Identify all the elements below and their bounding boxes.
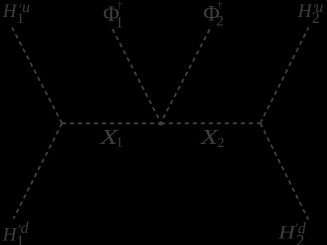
svg-text:H: H xyxy=(277,222,296,243)
svg-text:2: 2 xyxy=(217,136,224,151)
svg-text:1: 1 xyxy=(115,14,123,31)
wire H2u propagator xyxy=(260,28,308,124)
svg-text:2: 2 xyxy=(296,231,305,245)
svg-text:2: 2 xyxy=(312,10,320,27)
svg-text:†: † xyxy=(217,0,222,11)
svg-text:†: † xyxy=(117,0,122,11)
node label H1'u xyxy=(2,0,30,27)
wire H1d propagator xyxy=(14,123,63,218)
node label H1'd xyxy=(2,220,30,245)
node label Phi2 dagger xyxy=(203,0,224,29)
node label X1 xyxy=(99,125,123,150)
wire H1u propagator xyxy=(12,28,62,124)
wire Phi1 propagator xyxy=(113,29,163,125)
wire Phi2 propagator xyxy=(159,29,209,125)
svg-text:1: 1 xyxy=(116,135,123,150)
svg-text:1: 1 xyxy=(16,233,24,245)
svg-text:H: H xyxy=(297,1,313,22)
wire X1 horizontal propagator xyxy=(62,122,161,124)
node label H2'd xyxy=(277,220,307,245)
wire H2d propagator xyxy=(260,123,308,219)
svg-text:2: 2 xyxy=(216,13,224,29)
node label X2 xyxy=(199,125,224,151)
svg-text:1: 1 xyxy=(17,11,25,27)
node label H2'u xyxy=(297,0,323,27)
wire X2 horizontal propagator xyxy=(161,122,260,124)
node label Phi1 dagger xyxy=(103,0,123,31)
svg-text:H: H xyxy=(2,1,18,22)
